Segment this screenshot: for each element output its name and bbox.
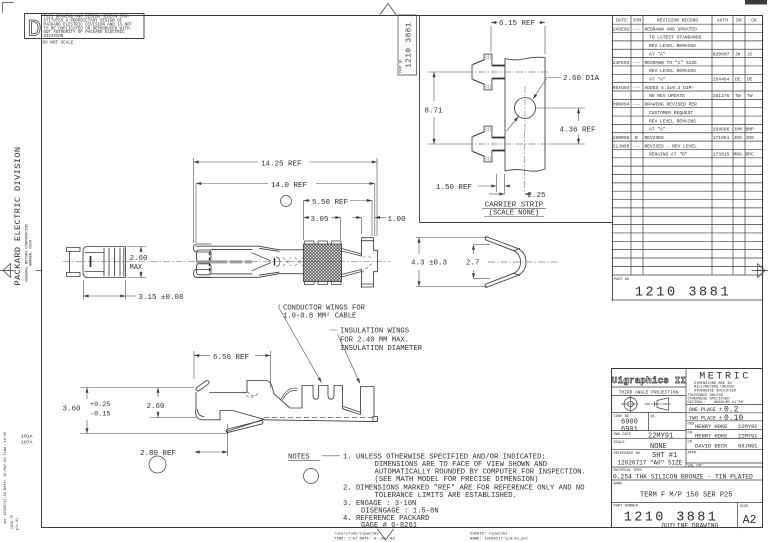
svg-text:0.254 THK SILICON BRONZE - TIN: 0.254 THK SILICON BRONZE - TIN PLATED [613,473,753,480]
svg-text:6.15 REF: 6.15 REF [499,20,535,28]
svg-text:INSULATION WINGS: INSULATION WINGS [340,328,409,336]
leader 2.60 DIA [533,78,561,100]
svg-text:D: D [28,17,42,43]
dim 2.7 [474,245,491,279]
svg-text:TOLERANCE LIMITS ARE ESTABLISH: TOLERANCE LIMITS ARE ESTABLISHED. [375,492,517,500]
svg-text:DES: DES [688,423,695,427]
svg-text:171061: 171061 [713,135,730,141]
svg-text:3.05: 3.05 [311,216,330,224]
svg-text:REV LEVEL REMAINS: REV LEVEL REMAINS [649,43,696,49]
svg-text:JOS: JOS [734,135,743,141]
fold mark bottom [378,529,394,540]
svg-text:21JN96: 21JN96 [613,143,630,149]
svg-text:WARREN, OHIO: WARREN, OHIO [30,239,34,266]
svg-text:TERM F M/P 150 SER P25: TERM F M/P 150 SER P25 [640,492,732,500]
svg-text:OUTLINE DRAWING: OUTLINE DRAWING [662,522,719,529]
svg-text:DE: DE [747,77,753,83]
svg-text:CONDUCTOR WINGS FOR: CONDUCTOR WINGS FOR [283,304,366,312]
carrier strip band [505,57,545,171]
centerline upper stub [466,71,548,73]
svg-text:6.50 REF: 6.50 REF [213,354,249,362]
svg-text:CK: CK [751,18,757,24]
stray ref circle left [149,456,166,473]
svg-text:A2: A2 [743,514,757,527]
svg-text:173815: 173815 [713,152,730,158]
svg-text:(SEE MATH MODEL FOR PRECISE DI: (SEE MATH MODEL FOR PRECISE DIMENSION) [375,476,539,484]
svg-text:---: --- [633,144,641,149]
dim 3.05 [304,218,341,241]
svg-text:164566: 164566 [713,127,730,133]
svg-text:TW: TW [735,93,741,99]
svg-text:1.50 REF: 1.50 REF [436,184,472,192]
svg-text:0.10: 0.10 [724,414,743,423]
dim 2.60 (open view) [150,388,196,418]
svg-text:DATE: DATE [616,18,627,24]
detail box separators [419,16,421,223]
svg-text:2.60 DIA: 2.60 DIA [563,75,600,83]
PART NO vertical box (top) [398,15,417,75]
dim 14.25 REF [194,158,378,243]
svg-text:THIRD ANGLE PROJECTION: THIRD ANGLE PROJECTION [619,390,679,396]
svg-text:PART NO: PART NO [399,60,403,73]
svg-text:12020717 "A0" SIZE: 12020717 "A0" SIZE [618,460,683,467]
ZONE-D BOX + proprietary note [25,14,145,39]
dim 3.60 +0.25/-0.15 [80,388,228,434]
svg-text:AUTH: AUTH [717,18,728,24]
hidden edge in box [209,252,211,274]
svg-text:2.80 REF: 2.80 REF [140,450,176,458]
svg-text:ADDED 4.3±0.3 DIM-: ADDED 4.3±0.3 DIM- [645,85,695,91]
svg-text:AT "A": AT "A" [649,51,666,57]
fold mark right [752,264,768,278]
dim 4.3 +-0.3 [416,238,487,287]
trim mark top-left [3,3,14,14]
svg-text:REV LEVEL REMAINS: REV LEVEL REMAINS [649,68,696,74]
funnel transition [252,246,304,277]
svg-text:06JN91: 06JN91 [738,444,757,450]
svg-text:TW: TW [747,93,753,99]
dim 2.60 MAX [127,247,146,278]
svg-text:4.36 REF: 4.36 REF [560,127,596,135]
svg-text:161276: 161276 [713,93,730,99]
ref circle [281,196,292,207]
svg-text:05AU94: 05AU94 [613,85,630,91]
svg-text:SCALE: SCALE [614,441,626,445]
svg-text:CK: CK [688,440,693,444]
svg-text:DAVID BECK: DAVID BECK [695,444,728,450]
svg-text:---: --- [633,103,641,108]
svg-text:NO REV UPDATE: NO REV UPDATE [649,93,685,99]
svg-text:22MY91: 22MY91 [738,434,757,440]
svg-text:2.60: 2.60 [130,255,149,263]
svg-text:AT "A": AT "A" [649,77,666,83]
svg-text:22MY91: 22MY91 [648,433,673,441]
top lip (slanted) [195,380,377,433]
svg-text:REV LEVEL REMAINS: REV LEVEL REMAINS [649,118,696,124]
svg-text:JVM: JVM [734,127,743,133]
svg-text:5.50 REF: 5.50 REF [312,199,348,207]
crossing centermarks [283,258,303,267]
svg-text:REDRAWN AND UPDATED: REDRAWN AND UPDATED [645,26,698,32]
outline left/bottom [195,393,197,410]
fold mark left [0,264,14,278]
svg-text:FOR 2.40 MM MAX.: FOR 2.40 MM MAX. [340,336,409,344]
dim 14.0 REF [196,184,375,244]
svg-text:1210 3881: 1210 3881 [406,22,414,68]
REVISION TABLE [612,15,763,301]
svg-text:DECIMAL: ANGULAR ±1°30': DECIMAL: ANGULAR ±1°30' [688,400,746,405]
dim 5.50 REF [304,201,373,241]
carrier flange (right end) [362,238,378,287]
svg-text:25MR96: 25MR96 [613,135,630,141]
dim 4.36 REF [536,108,585,144]
svg-text:DE: DE [735,77,741,83]
svg-text:OTHERWISE SPECIFIED: OTHERWISE SPECIFIED [694,389,737,393]
receptacle box [194,244,253,278]
dim 1.00 [353,218,387,235]
hidden seam arcs [243,392,259,398]
wire dashed line [264,416,373,418]
TITLE BLOCK [612,368,764,528]
svg-text:102A 7P: 102A 7P [11,515,15,529]
svg-text:154464: 154464 [713,77,730,83]
svg-text:DWG DATE: DWG DATE [614,433,632,437]
svg-text:22MY91: 22MY91 [738,424,757,430]
svg-text:NONE: NONE [650,443,667,451]
svg-text:VOL CM³: VOL CM³ [688,464,704,468]
svg-text:---: --- [633,27,641,32]
dim 6.50 REF [194,351,271,388]
svg-text:QC: QC [651,415,656,419]
svg-text:ONE PLACE ±: ONE PLACE ± [689,407,722,413]
svg-text:JC: JC [747,51,753,57]
svg-text:---: --- [633,61,641,66]
svg-text:plt-01: plt-01 [15,518,20,530]
svg-text:1.00: 1.00 [388,216,407,224]
svg-text:PART NO: PART NO [614,278,629,282]
svg-text:CUSTOMER REQUEST: CUSTOMER REQUEST [649,110,693,116]
svg-text:3.15 ±0.08: 3.15 ±0.08 [139,294,184,302]
leader CONDUCTOR WINGS [279,305,322,383]
svg-text:-0.15: -0.15 [90,411,110,419]
svg-text:SIZE: SIZE [740,505,750,509]
svg-text:PART NUMBER: PART NUMBER [614,505,639,509]
svg-text:2.7: 2.7 [466,260,480,268]
svg-text:REMAINS AT "B": REMAINS AT "B" [649,152,688,158]
svg-text:09NO94: 09NO94 [613,102,630,108]
hole 2.60 DIA [515,98,536,119]
svg-text:RPC: RPC [746,152,755,158]
svg-text:920007: 920007 [713,51,730,57]
top profile [210,381,361,415]
svg-text:REVISED: REVISED [645,135,665,141]
svg-text:APPR: APPR [688,452,698,456]
leader INSULATION WINGS [330,330,361,384]
svg-text:24SE92: 24SE92 [613,26,630,32]
svg-text:METRIC: METRIC [699,372,751,383]
svg-text:24FE93: 24FE93 [613,60,630,66]
svg-text:B: B [635,135,638,141]
svg-text:DIVISION: DIVISION [44,35,64,39]
svg-text:GAGE # G-8261: GAGE # G-8261 [361,522,417,530]
dim 3.15 +-0.08 [84,280,137,300]
svg-text:101A: 101A [21,434,33,440]
terminal stub upper [472,54,505,90]
spear underside and bottom strip [227,419,265,431]
svg-text:2.60: 2.60 [147,403,166,411]
svg-text:MAX: MAX [130,264,143,272]
svg-text:JK: JK [735,51,741,57]
svg-text:AT "A": AT "A" [649,127,666,133]
svg-text:DR: DR [736,18,742,24]
main centerline [63,261,390,263]
svg-text:HENRY HOKE: HENRY HOKE [695,424,727,430]
svg-text:JOS: JOS [746,135,755,141]
svg-text:REFERENCE NO: REFERENCE NO [614,452,641,456]
svg-text:TO LATEST STANDARDS: TO LATEST STANDARDS [649,35,702,41]
svg-text:BMP: BMP [746,127,755,133]
dim 8.71 [428,72,466,144]
svg-text:CARRIER STRIP: CARRIER STRIP [485,202,544,210]
dim 6.15 REF [491,23,545,55]
svg-text:Uigraphics II: Uigraphics II [612,375,686,386]
svg-text:3.60: 3.60 [63,405,82,413]
svg-text:8.71: 8.71 [425,108,444,116]
svg-text:DRAWING REVISED PER: DRAWING REVISED PER [645,102,698,108]
svg-text:REDRAWN TO "C" SIZE: REDRAWN TO "C" SIZE [645,60,698,66]
seam band (gray) [196,260,252,263]
svg-text:14.0 REF: 14.0 REF [271,182,307,190]
fold mark top [380,4,396,15]
dim 1.50 REF [478,174,505,194]
svg-text:+0.25: +0.25 [90,401,110,409]
svg-text:PACKARD ELECTRIC DIVISION: PACKARD ELECTRIC DIVISION [13,147,23,286]
svg-text:TWO PLACE ±: TWO PLACE ± [689,415,722,421]
stray ref circle right [304,469,319,484]
wing edges to flange [342,249,362,278]
svg-text:197A: 197A [21,440,33,446]
svg-text:DR: DR [688,431,693,435]
svg-text:/users/odo/cspwtsG1: /users/odo/cspwtsG1 [334,532,379,537]
svg-text:usr 12020717-01 Date: 10-MAY-: usr 12020717-01 Date: 10-MAY-99 Time: 12… [3,432,8,525]
crimp barrel (crosshatched) [304,244,342,282]
svg-text:TIME: 7:07 DATE: 6--26--96: TIME: 7:07 DATE: 6--26--96 [334,538,395,542]
svg-text:14.25 REF: 14.25 REF [261,160,302,168]
dim 2.80 REF [195,424,228,456]
scan bar top-right [745,0,767,5]
svg-text:---: --- [633,86,641,91]
terminal stub lower [472,126,505,162]
svg-text:1210 3881: 1210 3881 [635,286,731,301]
svg-text:HENRY HOKE: HENRY HOKE [695,434,727,440]
leader tick lower-left of hole [507,117,519,132]
svg-text:4.3 ±0.3: 4.3 ±0.3 [411,260,448,268]
svg-text:INSULATION DIAMETER: INSULATION DIAMETER [340,345,423,353]
svg-text:DO NOT SCALE: DO NOT SCALE [43,40,74,45]
centerline lower stub [466,143,548,145]
svg-text:NAME: 12020717-tpd-01.prt: NAME: 12020717-tpd-01.prt [470,537,528,542]
svg-text:USERID: cspwtsG1: USERID: cspwtsG1 [470,533,508,537]
svg-text:MRG: MRG [734,152,743,158]
dim 2.25 [489,193,505,195]
svg-text:REVISION RECORD: REVISION RECORD [657,18,699,24]
svg-text:1.0-0.8 MM² CABLE: 1.0-0.8 MM² CABLE [283,312,356,321]
svg-text:2.25: 2.25 [528,192,547,200]
svg-text:REVISED - REV LEVEL: REVISED - REV LEVEL [645,143,698,149]
svg-text:NAME: NAME [614,482,624,486]
svg-text:SYM: SYM [633,18,642,24]
